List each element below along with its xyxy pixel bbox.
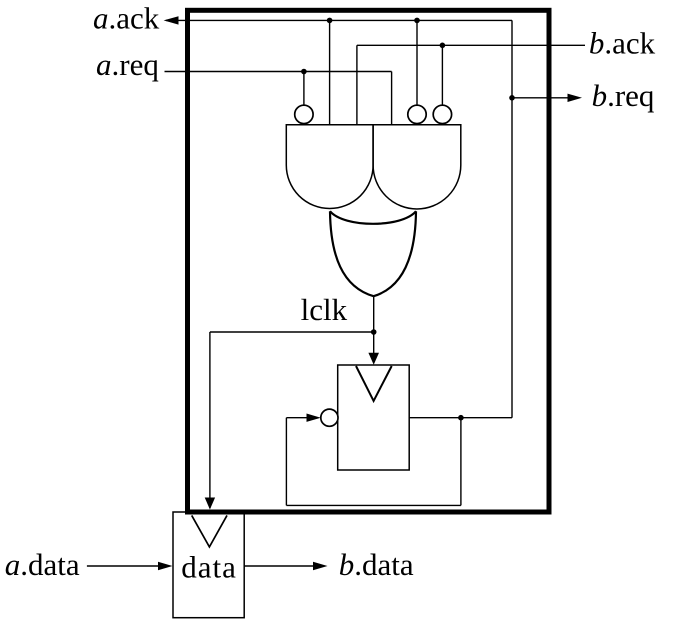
wire a.data arrow line — [87, 565, 160, 567]
node a.req junction — [301, 69, 307, 75]
svg-text:b.req: b.req — [592, 78, 655, 113]
wire a.ack down to right AND bubble input 2 — [416, 20, 418, 104]
arrowhead b.req (pointing right) — [568, 94, 583, 102]
wire b.ack down to right AND bubble input 3 — [441, 45, 443, 105]
node a.ack junction 2 — [414, 18, 420, 24]
outer box border — [188, 10, 550, 512]
AND gate left — [286, 125, 373, 209]
data latch rectangle — [173, 512, 244, 618]
node b.ack junction — [440, 43, 446, 49]
wire lclk down to latch clock arrow — [373, 332, 375, 362]
svg-text:b.data: b.data — [339, 547, 414, 582]
wire latch output to feedback vertical — [409, 417, 512, 419]
svg-text:lclk: lclk — [301, 292, 348, 327]
AND gate right — [373, 125, 461, 209]
wire a.ack horizontal from feedback to left exit — [166, 19, 512, 21]
wire feedback into enable arrow — [286, 417, 307, 419]
bubble latch enable input — [321, 409, 338, 426]
wire OR output down to lclk node — [373, 296, 375, 332]
arrowhead into latch clock (pointing down) — [368, 353, 379, 365]
latch lclk rectangle — [338, 365, 410, 470]
wire b.data arrow line — [244, 565, 314, 567]
svg-text:a.data: a.data — [5, 547, 80, 582]
wire b.ack down to left AND input 3 — [356, 45, 358, 124]
node b.req junction — [509, 95, 515, 101]
latch clock V symbol — [356, 366, 392, 401]
wire a.req down to left AND bubble input 1 — [303, 72, 305, 105]
wire a.req down to right AND input 1 — [391, 72, 393, 125]
wire a.req horizontal — [165, 71, 392, 73]
data latch clock V symbol — [192, 515, 227, 547]
bubble right AND input 3 — [433, 105, 451, 123]
node latch output junction — [458, 415, 464, 421]
arrowhead into data latch clock (pointing down) — [205, 498, 215, 510]
svg-text:a.req: a.req — [96, 47, 159, 82]
bubble right AND input 2 — [408, 105, 426, 123]
OR gate — [330, 211, 416, 296]
wire b.req out — [512, 97, 569, 99]
svg-text:b.ack: b.ack — [589, 26, 656, 61]
arrowhead a.ack (pointing left) — [164, 16, 179, 24]
wire feedback vertical right side x=512 — [511, 20, 513, 417]
arrowhead into enable bubble (pointing right) — [307, 414, 321, 422]
bubble left AND input 1 — [295, 105, 313, 123]
node lclk junction — [371, 329, 377, 335]
wire feedback bottom horizontal — [286, 504, 461, 506]
wire lclk to data latch vertical — [209, 332, 211, 508]
wire b.ack horizontal — [357, 44, 585, 46]
wire lclk to data latch horizontal — [210, 331, 374, 333]
arrowhead a.data (pointing right) — [158, 562, 173, 570]
wire a.ack down to left AND input 2 — [329, 20, 331, 124]
svg-text:a.ack: a.ack — [93, 1, 160, 36]
node a.ack junction 1 — [327, 18, 333, 24]
svg-text:data: data — [181, 550, 237, 585]
wire feedback left vertical — [285, 418, 287, 506]
arrowhead b.data (pointing right) — [313, 562, 328, 570]
wire feedback right vertical — [460, 418, 462, 506]
